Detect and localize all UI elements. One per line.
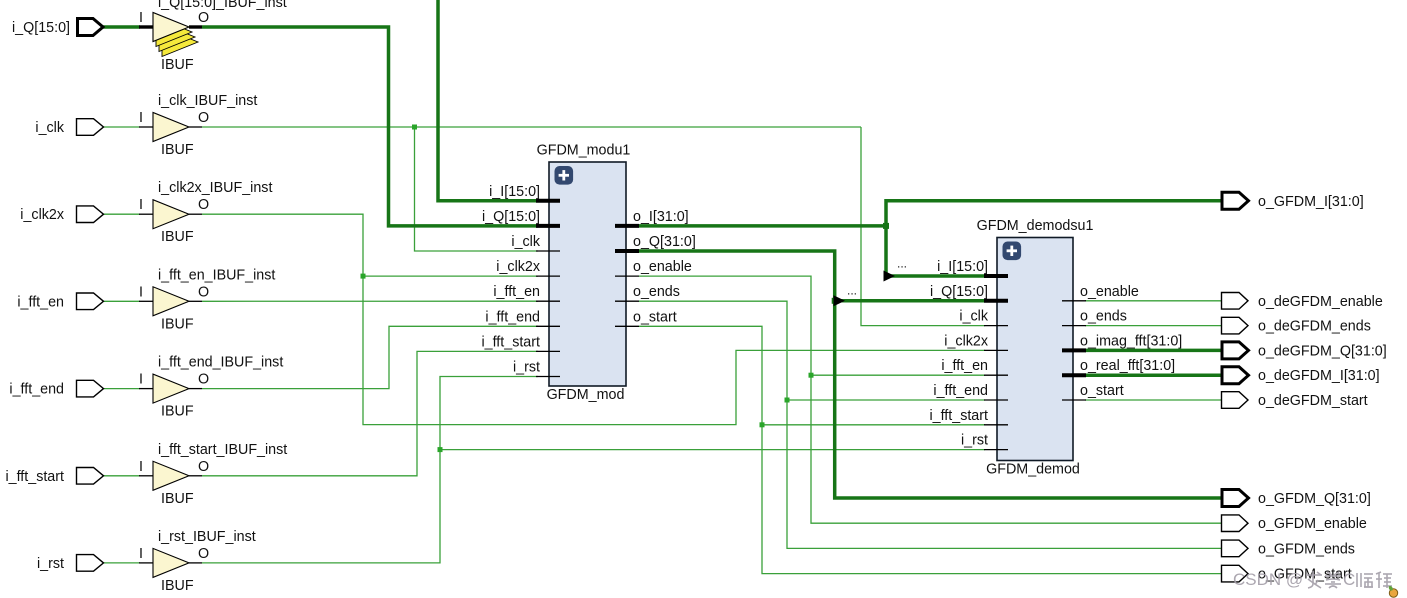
svg-text:i_clk_IBUF_inst: i_clk_IBUF_inst	[158, 93, 257, 109]
svg-text:i_fft_end: i_fft_end	[485, 309, 540, 325]
svg-text:o_Q[31:0]: o_Q[31:0]	[633, 234, 696, 250]
svg-text:o_real_fft[31:0]: o_real_fft[31:0]	[1080, 358, 1175, 374]
svg-text:i_fft_en_IBUF_inst: i_fft_en_IBUF_inst	[158, 267, 275, 283]
svg-text:o_deGFDM_Q[31:0]: o_deGFDM_Q[31:0]	[1258, 343, 1387, 359]
svg-text:O: O	[198, 197, 209, 213]
svg-text:o_ends: o_ends	[1080, 309, 1127, 325]
svg-text:i_fft_end: i_fft_end	[933, 383, 988, 399]
svg-text:i_clk2x: i_clk2x	[20, 207, 64, 223]
svg-text:i_fft_en: i_fft_en	[493, 284, 540, 300]
svg-text:o_enable: o_enable	[1080, 284, 1139, 300]
svg-text:I: I	[139, 197, 143, 213]
svg-text:i_fft_start: i_fft_start	[5, 469, 64, 485]
svg-text:I: I	[139, 459, 143, 475]
svg-text:i_fft_start_IBUF_inst: i_fft_start_IBUF_inst	[158, 442, 287, 458]
svg-text:O: O	[198, 10, 209, 26]
svg-text:I: I	[139, 10, 143, 26]
svg-text:i_Q[15:0]: i_Q[15:0]	[12, 20, 70, 36]
svg-text:...: ...	[897, 257, 907, 271]
svg-text:i_fft_end_IBUF_inst: i_fft_end_IBUF_inst	[158, 355, 283, 371]
svg-text:o_GFDM_enable: o_GFDM_enable	[1258, 516, 1367, 532]
svg-text:i_I[15:0]: i_I[15:0]	[489, 184, 540, 200]
svg-text:GFDM_mod: GFDM_mod	[547, 387, 625, 403]
svg-text:i_rst: i_rst	[513, 360, 540, 376]
svg-text:IBUF: IBUF	[161, 578, 194, 594]
svg-text:i_clk2x_IBUF_inst: i_clk2x_IBUF_inst	[158, 180, 272, 196]
svg-text:i_fft_en: i_fft_en	[941, 358, 988, 374]
svg-text:i_fft_end: i_fft_end	[9, 382, 64, 398]
svg-text:i_Q[15:0]: i_Q[15:0]	[482, 209, 540, 225]
svg-text:o_enable: o_enable	[633, 259, 692, 275]
svg-text:i_clk: i_clk	[511, 234, 540, 250]
svg-text:O: O	[198, 372, 209, 388]
svg-text:i_clk2x: i_clk2x	[944, 333, 988, 349]
svg-text:o_I[31:0]: o_I[31:0]	[633, 209, 689, 225]
svg-text:o_start: o_start	[633, 309, 677, 325]
svg-text:i_clk: i_clk	[959, 309, 988, 325]
svg-text:o_ends: o_ends	[633, 284, 680, 300]
svg-text:i_rst: i_rst	[961, 433, 988, 449]
svg-text:o_GFDM_ends: o_GFDM_ends	[1258, 541, 1355, 557]
svg-text:IBUF: IBUF	[161, 491, 194, 507]
svg-text:i_Q[15:0]: i_Q[15:0]	[930, 284, 988, 300]
svg-text:O: O	[198, 546, 209, 562]
svg-text:IBUF: IBUF	[161, 404, 194, 420]
svg-text:O: O	[198, 110, 209, 126]
svg-text:I: I	[139, 372, 143, 388]
svg-text:i_fft_en: i_fft_en	[17, 294, 64, 310]
svg-text:GFDM_demod: GFDM_demod	[986, 462, 1080, 478]
svg-text:i_rst: i_rst	[37, 556, 64, 572]
svg-text:I: I	[139, 110, 143, 126]
svg-text:CSDN @: CSDN @	[1233, 570, 1303, 589]
svg-text:O: O	[198, 459, 209, 475]
svg-text:i_clk: i_clk	[35, 120, 64, 136]
svg-text:o_deGFDM_ends: o_deGFDM_ends	[1258, 319, 1371, 335]
svg-text:GFDM_demodsu1: GFDM_demodsu1	[977, 218, 1094, 234]
svg-text:o_start: o_start	[1080, 383, 1124, 399]
svg-text:i_fft_start: i_fft_start	[929, 408, 988, 424]
svg-text:o_deGFDM_I[31:0]: o_deGFDM_I[31:0]	[1258, 368, 1380, 384]
svg-text:i_I[15:0]: i_I[15:0]	[937, 259, 988, 275]
svg-text:IBUF: IBUF	[161, 229, 194, 245]
svg-text:IBUF: IBUF	[161, 142, 194, 158]
svg-text:i_fft_start: i_fft_start	[481, 334, 540, 350]
svg-text:IBUF: IBUF	[161, 316, 194, 332]
svg-text:i_Q[15:0]_IBUF_inst: i_Q[15:0]_IBUF_inst	[158, 0, 287, 11]
svg-text:o_deGFDM_start: o_deGFDM_start	[1258, 393, 1368, 409]
svg-text:i_rst_IBUF_inst: i_rst_IBUF_inst	[158, 529, 256, 545]
svg-text:o_deGFDM_enable: o_deGFDM_enable	[1258, 294, 1383, 310]
svg-text:o_GFDM_I[31:0]: o_GFDM_I[31:0]	[1258, 194, 1364, 210]
svg-text:i_clk2x: i_clk2x	[496, 259, 540, 275]
svg-text:I: I	[139, 284, 143, 300]
svg-text:...: ...	[847, 283, 857, 297]
svg-text:I: I	[139, 546, 143, 562]
svg-text:C: C	[1343, 570, 1355, 589]
svg-text:O: O	[198, 284, 209, 300]
svg-text:GFDM_modu1: GFDM_modu1	[537, 143, 631, 159]
svg-text:IBUF: IBUF	[161, 57, 194, 73]
svg-text:o_imag_fft[31:0]: o_imag_fft[31:0]	[1080, 333, 1182, 349]
svg-text:o_GFDM_Q[31:0]: o_GFDM_Q[31:0]	[1258, 491, 1371, 507]
